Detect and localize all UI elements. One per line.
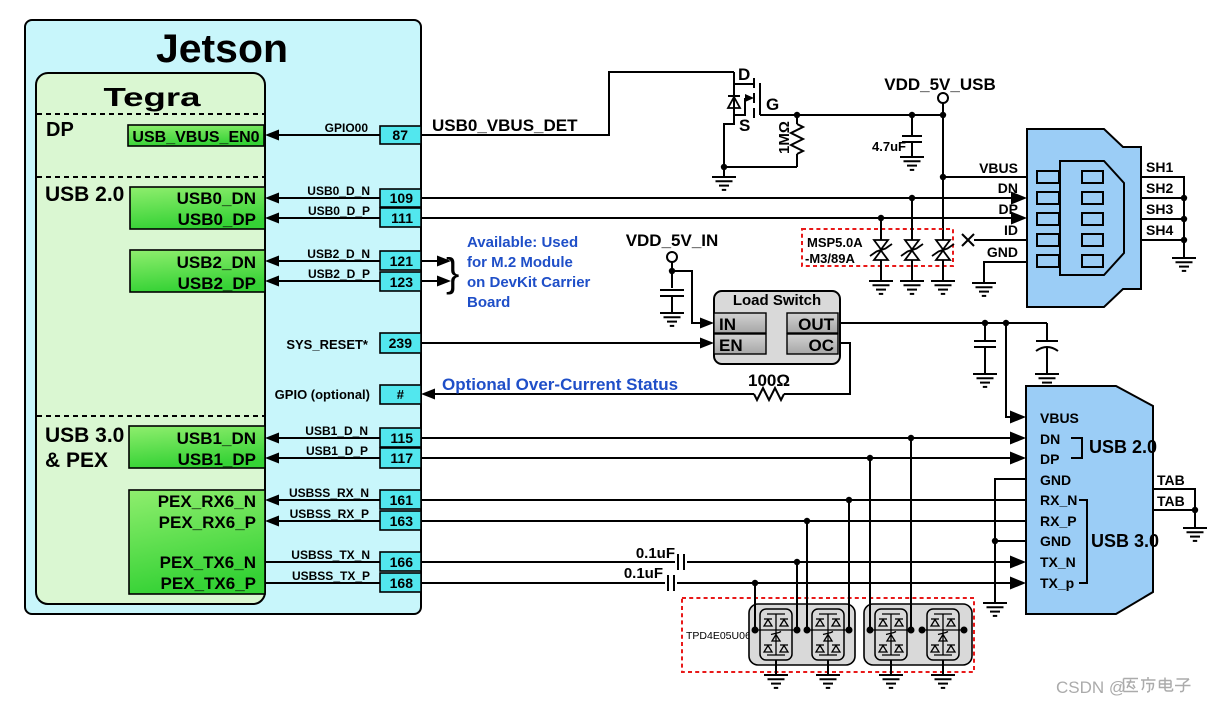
svg-text:TAB: TAB — [1157, 493, 1185, 509]
svg-text:EN: EN — [719, 336, 743, 355]
pin 166 — [380, 552, 421, 571]
node U4A rail right — [908, 627, 915, 634]
capacitor at VDD_5V_IN — [660, 290, 684, 312]
node gate/1M junction — [794, 112, 800, 118]
svg-text:0.1uF: 0.1uF — [624, 565, 663, 582]
svg-text:SH3: SH3 — [1146, 201, 1173, 217]
TVS diode D1 — [870, 218, 892, 281]
wire 1M bottom to source ground rail — [724, 166, 797, 168]
J1 contact 1 — [1082, 171, 1103, 183]
node TX_p drop — [752, 580, 758, 586]
arrow into J2 TX_N — [1010, 556, 1026, 569]
wire SH2 — [1141, 197, 1184, 199]
svg-text:SH2: SH2 — [1146, 180, 1173, 196]
node VBUS drop — [1003, 320, 1009, 326]
svg-text:& PEX: & PEX — [45, 449, 108, 472]
wire GPIO00 from pin 87 to USB_VBUS_EN0 with arrow — [279, 134, 380, 136]
wire USB0_D_N pin109 to USB0_DN and to connector DN — [279, 197, 1014, 199]
J1 pin stub DP — [1037, 213, 1059, 225]
svg-text:#: # — [397, 387, 405, 402]
svg-text:1MΩ: 1MΩ — [776, 121, 793, 154]
wire VDD_5V_IN to Load Switch IN — [672, 271, 702, 323]
pin 168 — [380, 573, 421, 592]
ground below U4A — [879, 660, 903, 688]
svg-text:PEX_TX6_P: PEX_TX6_P — [161, 574, 256, 593]
svg-text:PEX_RX6_N: PEX_RX6_N — [158, 492, 256, 511]
wire SH3 — [1141, 218, 1184, 220]
svg-text:USB1_DP: USB1_DP — [178, 450, 256, 469]
svg-text:RX_N: RX_N — [1040, 492, 1077, 508]
port USB_VBUS_EN0 — [128, 125, 264, 146]
section divider — [37, 176, 264, 178]
node cap C5 — [982, 320, 988, 326]
node RX_N drop — [846, 497, 852, 503]
Load Switch U2 — [714, 291, 840, 364]
transistor Q1 P-FET body — [734, 65, 779, 135]
wire USB1_D_P pin117 to connector DP — [279, 457, 1014, 459]
svg-text:Load Switch: Load Switch — [733, 292, 821, 309]
wire USB1_D_P to U4 — [869, 458, 871, 630]
wire USB1_D_N to U4 — [910, 438, 912, 630]
ground below C5 — [973, 374, 997, 387]
ground below U4B — [931, 660, 955, 688]
svg-text:DP: DP — [1040, 451, 1059, 467]
svg-text:239: 239 — [389, 335, 413, 351]
J1 contact 5 — [1082, 255, 1103, 267]
resistor 1M ohm — [776, 115, 803, 167]
ground below TAB — [1183, 510, 1207, 541]
svg-text:USB0_D_N: USB0_D_N — [307, 184, 370, 198]
svg-text:0.1uF: 0.1uF — [636, 545, 675, 562]
node U3B rail right — [846, 627, 853, 634]
svg-text:Jetson: Jetson — [156, 27, 288, 71]
svg-text:SH1: SH1 — [1146, 159, 1173, 175]
node U4B rail right — [961, 627, 968, 634]
capacitor C5 — [974, 323, 996, 373]
svg-text:for M.2 Module: for M.2 Module — [467, 254, 573, 271]
svg-text:Optional Over-Current Status: Optional Over-Current Status — [442, 375, 678, 394]
pin 87 — [380, 126, 421, 144]
svg-text:100Ω: 100Ω — [748, 371, 790, 390]
ground below U3A — [764, 660, 788, 688]
svg-text:GND: GND — [987, 244, 1018, 260]
svg-text:VDD_5V_USB: VDD_5V_USB — [884, 75, 996, 94]
connector J1 USB micro outer shell — [1027, 129, 1141, 307]
watermark CJK glyphs — [1124, 677, 1191, 692]
pin 115 — [380, 428, 421, 447]
wire RX_N to U3 — [848, 500, 850, 630]
svg-text:CSDN @: CSDN @ — [1056, 678, 1126, 697]
J1 pin stub GND — [1037, 255, 1059, 267]
arrow into J2 VBUS — [1010, 411, 1026, 424]
ground below 4.7uF — [900, 157, 924, 170]
pin 163 — [380, 511, 421, 530]
ground below D1 — [869, 281, 893, 294]
wire VBUS vertical from VDD node down to TVS3 — [942, 115, 944, 240]
node source/ground junction — [721, 164, 727, 170]
svg-text:USB 3.0: USB 3.0 — [45, 424, 124, 447]
svg-text:Tegra: Tegra — [104, 82, 202, 112]
wire OUT rail — [840, 322, 1047, 324]
pin 109 — [380, 189, 421, 207]
ESD cell U4A — [871, 609, 911, 660]
svg-text:USB 2.0: USB 2.0 — [45, 183, 124, 206]
ground below D2 — [900, 281, 924, 294]
J1 contact 4 — [1082, 234, 1103, 246]
pin 111 — [380, 208, 421, 227]
svg-text:4.7uF: 4.7uF — [872, 139, 906, 154]
svg-text:USB0_DP: USB0_DP — [178, 210, 256, 229]
arrow into J2 DN — [1010, 432, 1026, 445]
capacitor 0.1uF on TX_p — [624, 565, 674, 591]
svg-text:115: 115 — [390, 430, 413, 446]
wire OUT to lower connector VBUS — [1006, 323, 1014, 417]
pin 117 — [380, 448, 421, 468]
capacitor 4.7uF — [872, 115, 922, 156]
ESD cell U3B — [808, 609, 848, 660]
node U3A rail right — [794, 627, 801, 634]
svg-text:GPIO00: GPIO00 — [325, 121, 369, 135]
TVS diode D2 — [901, 198, 923, 281]
ESD package U4 — [864, 604, 972, 665]
svg-text:USB2_D_P: USB2_D_P — [308, 267, 370, 281]
svg-text:TX_N: TX_N — [1040, 554, 1076, 570]
section divider — [37, 113, 264, 115]
svg-text:USB1_DN: USB1_DN — [177, 429, 256, 448]
connector J1 cavity — [1060, 161, 1124, 275]
svg-text:D: D — [738, 65, 750, 84]
port USB2_DN / USB2_DP — [130, 250, 265, 293]
svg-text:USBSS_TX_P: USBSS_TX_P — [292, 569, 370, 583]
svg-text:on DevKit Carrier: on DevKit Carrier — [467, 274, 591, 291]
svg-text:PEX_RX6_P: PEX_RX6_P — [159, 513, 256, 532]
wire USBSS_TX_P pin168 to connector TX_p — [265, 582, 665, 584]
no-connect X on ID line — [962, 234, 974, 246]
svg-text:Available: Used: Available: Used — [467, 234, 578, 251]
J1 pin stub DN — [1037, 192, 1059, 204]
svg-text:SYS_RESET*: SYS_RESET* — [286, 337, 369, 352]
power VDD_5V_IN — [626, 231, 719, 288]
svg-text:123: 123 — [390, 274, 414, 290]
pin # GPIO — [380, 385, 421, 404]
wire J2 GND1 — [995, 479, 1026, 602]
svg-text:USB_VBUS_EN0: USB_VBUS_EN0 — [132, 129, 259, 146]
wire USBSS_RX_P pin163 to connector RX_P — [279, 520, 1026, 522]
wire J1 GND — [984, 262, 1027, 282]
ground below VDD_5V_IN cap — [660, 313, 684, 326]
svg-text:OUT: OUT — [798, 315, 835, 334]
wire GPIO optional over-current with arrow into pin # — [433, 393, 754, 395]
svg-text:USBSS_RX_N: USBSS_RX_N — [289, 486, 369, 500]
svg-text:121: 121 — [390, 253, 414, 269]
node RX_P drop — [804, 518, 810, 524]
J1 pin stub ID — [1037, 234, 1059, 246]
wire USBSS_TX_N pin166 to connector TX_N — [265, 561, 675, 563]
wire OC return — [784, 343, 850, 394]
node USB1_D_N drop — [908, 435, 914, 441]
svg-text:G: G — [766, 95, 779, 114]
wire Q1 source to ground — [724, 115, 734, 167]
svg-text:SH4: SH4 — [1146, 222, 1173, 238]
ground below D3 — [931, 281, 955, 294]
wire ID to connector — [974, 239, 1027, 241]
svg-text:DN: DN — [1040, 431, 1060, 447]
svg-text:GND: GND — [1040, 472, 1071, 488]
svg-text:USB1_D_N: USB1_D_N — [305, 424, 368, 438]
wire TX_p to U3 — [754, 583, 756, 630]
svg-text:OC: OC — [809, 336, 835, 355]
capacitor 0.1uF on TX_N — [636, 545, 684, 570]
node VBUS branch — [940, 174, 946, 180]
ground below U3B — [816, 660, 840, 688]
svg-text:USB0_VBUS_DET: USB0_VBUS_DET — [432, 116, 578, 135]
capacitor C6 polarized — [1036, 323, 1058, 373]
svg-text:111: 111 — [391, 210, 413, 226]
bracket USB 2.0 — [1071, 438, 1082, 458]
svg-text:USB0_D_P: USB0_D_P — [308, 204, 370, 218]
svg-text:VBUS: VBUS — [979, 160, 1018, 176]
svg-text:S: S — [739, 116, 750, 135]
svg-text:-M3/89A: -M3/89A — [805, 251, 855, 266]
node TVS2 on DN line — [909, 195, 915, 201]
node U3A rail left — [752, 627, 759, 634]
node TAB junction — [1192, 507, 1198, 513]
wire USB1_D_N pin115 to connector DN — [279, 437, 1014, 439]
ground below J1 GND — [972, 283, 996, 296]
resistor 100 ohm — [754, 388, 784, 400]
arrow into J1 DP — [1011, 212, 1027, 225]
svg-text:TPD4E05U06: TPD4E05U06 — [686, 630, 751, 642]
wire USB2_D_N pin121 — [279, 260, 380, 262]
svg-text:GND: GND — [1040, 533, 1071, 549]
svg-text:USBSS_TX_N: USBSS_TX_N — [291, 548, 370, 562]
svg-text:117: 117 — [390, 450, 413, 466]
arrow into J1 DN — [1011, 192, 1027, 205]
svg-text:USB2_D_N: USB2_D_N — [307, 247, 370, 261]
port USB0_DN / USB0_DP — [130, 187, 265, 229]
wire TAB1 — [1153, 489, 1195, 509]
wire SYS_RESET* pin239 to Load Switch EN — [421, 342, 702, 344]
ground below J2 GND — [983, 603, 1007, 616]
svg-text:163: 163 — [390, 513, 414, 529]
svg-text:USB 2.0: USB 2.0 — [1089, 437, 1157, 457]
wire TAB2 — [1153, 509, 1195, 511]
node VDD junction — [940, 112, 946, 118]
svg-text:USB0_DN: USB0_DN — [177, 189, 256, 208]
svg-text:168: 168 — [390, 575, 414, 591]
svg-text:USB1_D_P: USB1_D_P — [306, 444, 368, 458]
wire J2 GND2 — [995, 540, 1026, 542]
svg-text:PEX_TX6_N: PEX_TX6_N — [160, 553, 256, 572]
red dashed box TPD4E05U06 — [682, 598, 974, 672]
svg-text:109: 109 — [390, 190, 414, 206]
TVS diode D3 — [932, 240, 954, 281]
body diode of Q1 — [728, 96, 740, 108]
pin 121 — [380, 251, 421, 270]
J1 contact 2 — [1082, 192, 1103, 204]
wire USB0_D_P pin111 to USB0_DP and to connector DP — [279, 217, 1014, 219]
J1 pin stub VBUS — [1037, 171, 1059, 183]
wire USBSS_RX_N pin161 to connector RX_N — [279, 499, 1026, 501]
node 4.7uF junction — [909, 112, 915, 118]
node GND junction — [992, 538, 998, 544]
ground below C6 — [1035, 374, 1059, 387]
wire TX_N to U3 — [796, 562, 798, 630]
svg-text:87: 87 — [392, 127, 408, 143]
connector J2 USB3 outer shell — [1026, 386, 1153, 614]
ESD cell U4B — [923, 609, 963, 660]
Tegra SoC outline — [36, 73, 265, 604]
svg-text:USB2_DP: USB2_DP — [178, 274, 256, 293]
arrow into J2 TX_p — [1010, 577, 1026, 590]
svg-text:Board: Board — [467, 294, 510, 311]
svg-text:USB 3.0: USB 3.0 — [1091, 531, 1159, 551]
bracket USB 3.0 — [1079, 500, 1087, 583]
svg-text:VBUS: VBUS — [1040, 410, 1079, 426]
wire gate line to VDD_5V_USB node — [760, 114, 943, 116]
arrow into IN — [700, 318, 714, 329]
svg-text:IN: IN — [719, 315, 736, 334]
ground below SH — [1172, 240, 1196, 271]
node TVS1 on DP line — [878, 215, 884, 221]
wire USB2_D_P pin123 — [279, 280, 380, 282]
svg-text:161: 161 — [390, 492, 414, 508]
node U4A rail left — [867, 627, 874, 634]
svg-text:TX_p: TX_p — [1040, 575, 1074, 591]
pin 161 — [380, 490, 421, 509]
section divider — [37, 415, 264, 417]
J1 contact 3 — [1082, 213, 1103, 225]
node U3B rail left — [804, 627, 811, 634]
arrow into J2 DP — [1010, 452, 1026, 465]
Jetson module outline — [25, 20, 421, 614]
svg-text:TAB: TAB — [1157, 472, 1185, 488]
svg-text:RX_P: RX_P — [1040, 513, 1077, 529]
ground below Q1 — [712, 167, 736, 190]
ESD cell U3A — [756, 609, 796, 660]
port PEX_RX6 / PEX_TX6 — [129, 490, 265, 594]
node USB1_D_P drop — [867, 455, 873, 461]
svg-text:VDD_5V_IN: VDD_5V_IN — [626, 231, 719, 250]
wire RX_P to U3 — [806, 521, 808, 630]
pin 239 — [380, 333, 421, 353]
wire USB0_VBUS_DET from pin 87 to MOSFET drain — [421, 72, 734, 135]
svg-text:GPIO (optional): GPIO (optional) — [275, 387, 370, 402]
pin 123 — [380, 272, 421, 291]
ESD package U3 — [749, 604, 855, 665]
svg-text:DP: DP — [46, 119, 74, 141]
svg-text:USBSS_RX_P: USBSS_RX_P — [290, 507, 369, 521]
svg-text:MSP5.0A: MSP5.0A — [807, 235, 863, 250]
svg-text:}: } — [446, 251, 459, 295]
wire VBUS to connector — [943, 176, 1027, 178]
svg-text:166: 166 — [390, 554, 414, 570]
node TX_N drop — [794, 559, 800, 565]
port USB1_DN / USB1_DP — [129, 426, 265, 469]
node U4B rail left — [919, 627, 926, 634]
power VDD_5V_USB — [884, 75, 996, 115]
wire SH4 — [1141, 239, 1184, 241]
arrow into EN — [700, 338, 714, 349]
node VDD_5V_IN junction — [669, 268, 675, 274]
red dashed box MSP5.0A — [802, 229, 953, 266]
wire SH1 — [1141, 177, 1184, 240]
svg-text:USB2_DN: USB2_DN — [177, 253, 256, 272]
